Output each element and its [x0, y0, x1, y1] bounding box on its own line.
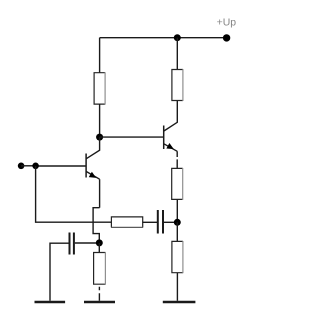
wire feedback from input down and right to R6 — [36, 166, 112, 222]
ground right — [163, 301, 196, 304]
wire node B to R5 — [98, 243, 100, 252]
wire C1 left to ground — [50, 243, 69, 301]
wire C1 to node B — [75, 242, 96, 244]
wire rail to R2 top — [176, 38, 178, 70]
resistor R3 (Q2 emitter upper) — [172, 168, 183, 200]
ground middle — [84, 301, 115, 304]
wire R6 to C2 — [142, 221, 157, 223]
wire R5 bottom dash-dot to ground — [98, 287, 100, 301]
capacitor C1 (emitter bypass) — [70, 233, 74, 255]
node junction dot at rail over R2 — [174, 34, 181, 41]
transistor Q1 (NPN left) — [86, 137, 100, 208]
wire node C to R4 top — [176, 222, 178, 241]
resistor R1 (left collector load) — [94, 72, 105, 104]
wire C2 to node C — [164, 221, 174, 223]
terminal +Up dot — [223, 34, 230, 41]
node C dot (Q2 emitter divider) — [174, 219, 181, 226]
node input dot 2 — [32, 163, 39, 170]
resistor R4 (Q2 emitter lower) — [172, 241, 183, 273]
wire rail to R1 top — [99, 38, 101, 73]
resistor R2 (right collector load) — [172, 69, 183, 101]
wire Q1 emitter jog down to node B — [93, 208, 100, 240]
wire R3 bottom to node C — [176, 200, 178, 223]
capacitor C2 (feedback) — [158, 210, 163, 234]
resistor R5 (Q1 emitter) — [94, 252, 106, 285]
transistor Q2 (NPN right) — [164, 101, 178, 169]
wire input link — [21, 165, 35, 167]
resistor R6 (feedback, horizontal) — [111, 217, 143, 228]
svg-text:+Up: +Up — [217, 18, 237, 29]
wire Q1 base — [36, 165, 87, 167]
wire R4 bottom to ground — [176, 273, 178, 301]
wire R1 bottom to node A — [99, 104, 101, 137]
terminal input dot 1 — [18, 163, 25, 170]
node B dot (Q1 emitter network) — [96, 239, 103, 246]
node A dot (Q1 collector / Q2 base) — [96, 134, 103, 141]
wire top supply rail — [100, 37, 227, 39]
ground left — [35, 301, 66, 304]
wire node A to Q2 base — [100, 136, 164, 138]
